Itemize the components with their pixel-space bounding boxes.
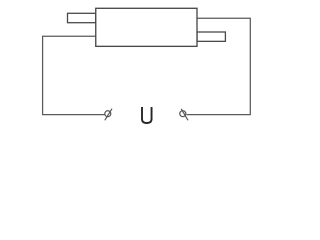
right lead stub [197, 32, 225, 41]
left terminal circle [105, 111, 111, 117]
left lead stub [68, 13, 96, 22]
left terminal slash [105, 109, 112, 121]
wire: left loop from body left edge down and to left terminal [43, 36, 105, 114]
right terminal circle [180, 111, 186, 117]
resistor body (conductor bar) [96, 8, 197, 46]
label U (voltage) [142, 107, 152, 123]
right terminal slash [181, 109, 188, 121]
wire: right loop from body right edge down to right terminal [187, 18, 251, 114]
